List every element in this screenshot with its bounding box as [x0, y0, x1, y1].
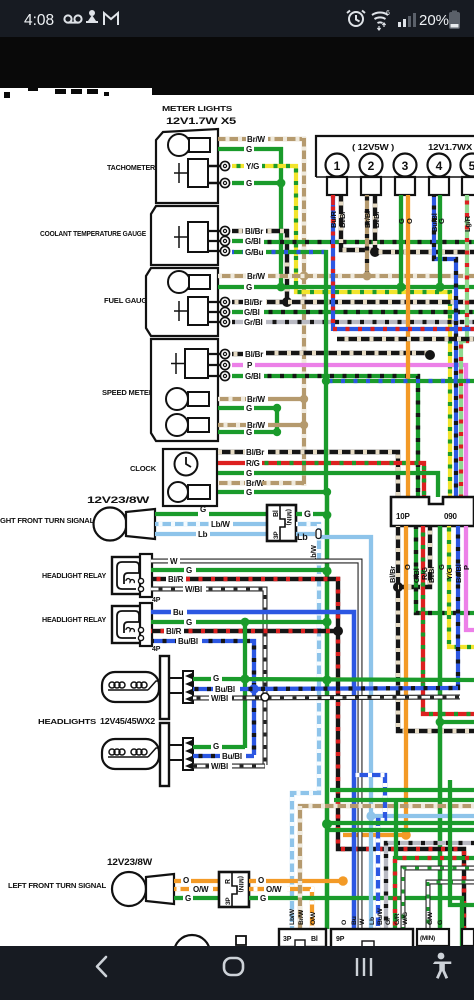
- svg-text:12V45/45WX2: 12V45/45WX2: [100, 716, 155, 726]
- svg-text:G: G: [260, 894, 266, 903]
- wire G relay2 run: [196, 620, 329, 624]
- svg-text:3P: 3P: [273, 531, 280, 539]
- svg-text:LEFT FRONT TURN SIGNAL: LEFT FRONT TURN SIGNAL: [8, 883, 107, 890]
- svg-text:O: O: [183, 876, 189, 885]
- svg-text:P: P: [247, 361, 253, 370]
- svg-text:W/Bl: W/Bl: [211, 762, 228, 771]
- terminal G/Bl fuel: [220, 307, 229, 316]
- terminal G/Bl speed: [220, 371, 229, 380]
- wire G/R 9P pin: [395, 858, 474, 929]
- lamp socket 3: [395, 177, 415, 195]
- wire Bl/Br coolant run: [266, 229, 289, 233]
- wire Lg/R lamp5: [461, 195, 467, 497]
- svg-text:METER LIGHTS: METER LIGHTS: [162, 104, 232, 113]
- wire Br/W tach bulb: [218, 137, 246, 141]
- svg-text:G: G: [213, 674, 219, 683]
- stub tach terminals: [208, 166, 220, 183]
- svg-text:Bl/Br: Bl/Br: [372, 211, 381, 228]
- meter light bulb (speed lower): [166, 414, 188, 436]
- left front turn signal bulb: [112, 872, 146, 906]
- svg-text:G: G: [186, 566, 192, 575]
- svg-text:G/Bl: G/Bl: [244, 308, 260, 317]
- wire G bottom bus3: [327, 821, 474, 825]
- wire Bu relay2: [151, 610, 171, 615]
- wire G bottom bus1: [330, 788, 474, 792]
- junction O turn: [338, 876, 348, 886]
- wire G turn lower: [174, 896, 183, 900]
- wire Br/Bl lamp2: [365, 195, 369, 277]
- wire Bu/Bl relay2 run: [202, 641, 254, 755]
- partial turn signal bulb bottom: [174, 935, 210, 971]
- headlight bulb 1: [102, 672, 159, 702]
- junction Br/W x304: [299, 271, 308, 280]
- connector MIN lower: [219, 872, 249, 907]
- junction G turn: [323, 511, 332, 520]
- nav recents button: [357, 958, 371, 976]
- svg-text:Bu/R: Bu/R: [329, 211, 338, 228]
- junction Bl/Br x375: [370, 247, 380, 257]
- fuel gauge housing box: [146, 268, 218, 336]
- wire G headlight1: [193, 677, 211, 681]
- wire R/G clock: [218, 461, 245, 465]
- svg-text:HEADLIGHTS: HEADLIGHTS: [38, 719, 97, 726]
- wire Y/G 10P pin: [449, 526, 474, 647]
- wire G relay2: [151, 620, 184, 624]
- svg-text:Bl/Br: Bl/Br: [246, 448, 264, 457]
- wire Br/W tach to vertical: [268, 137, 306, 141]
- meter light bulb (fuel): [168, 271, 190, 293]
- wire G tach bulb: [218, 147, 244, 151]
- wire Bl/Br coolant: [232, 229, 243, 233]
- terminal P speed: [220, 360, 229, 369]
- svg-text:W/G: W/G: [402, 912, 409, 925]
- junction Bl/R relay2: [333, 626, 343, 636]
- wire O/W turn lower out: [249, 887, 264, 891]
- nav home button: [224, 958, 243, 975]
- wire Bl/Br coolant drop: [285, 229, 289, 303]
- wire Br/W bus: [268, 274, 474, 278]
- svg-text:Bl/Br: Bl/Br: [388, 566, 397, 583]
- svg-text:Br/Bl: Br/Bl: [363, 211, 372, 228]
- svg-text:12V23/8W: 12V23/8W: [87, 495, 150, 505]
- indicator lamp 4: [428, 154, 451, 177]
- junction G relay1: [322, 566, 331, 575]
- junction G bus sockets: [396, 282, 405, 291]
- junction G relay2: [322, 617, 331, 626]
- svg-text:Y/G: Y/G: [246, 162, 259, 171]
- wire Bu/Bl headlight bus: [240, 688, 458, 689]
- svg-text:G/W: G/W: [427, 911, 434, 925]
- wire Bu/Bl lamp4: [434, 195, 456, 497]
- junction G x277: [273, 404, 281, 412]
- wire Bl/Br lower bus: [337, 337, 474, 341]
- svg-text:O/W: O/W: [193, 885, 209, 894]
- svg-text:G: G: [437, 218, 446, 224]
- wire G/Bu coolant: [232, 250, 243, 254]
- junction G clock x327: [323, 488, 331, 496]
- wire Bl/Br right bus: [375, 250, 474, 254]
- wire G headlight2: [193, 745, 211, 749]
- wire P 10P pin: [466, 526, 474, 630]
- wire Br/W clock bulb: [218, 481, 245, 485]
- svg-text:Y/G: Y/G: [445, 567, 454, 580]
- svg-text:Br/W: Br/W: [246, 479, 265, 488]
- svg-text:( 12V5W ): ( 12V5W ): [352, 142, 394, 152]
- meter light bulb (tachometer): [168, 134, 190, 156]
- svg-text:Lb/W: Lb/W: [289, 908, 296, 925]
- svg-text:1: 1: [334, 159, 341, 173]
- svg-text:3P: 3P: [225, 897, 232, 905]
- wire G tach to vertical: [254, 147, 283, 151]
- wire G clock: [218, 471, 244, 475]
- connector MIN bottom: [417, 929, 449, 946]
- wire W/G 9P pin: [403, 868, 474, 929]
- svg-text:Br/W: Br/W: [247, 395, 266, 404]
- svg-text:12V1.7WX: 12V1.7WX: [428, 143, 473, 152]
- svg-text:G: G: [246, 145, 252, 154]
- wire Bu/R horizontal lower: [333, 327, 474, 331]
- junction G x440: [436, 718, 445, 727]
- wire Bl/Br lamp2: [373, 195, 377, 254]
- wire G headlight link vertical: [243, 622, 247, 748]
- wire Lb turn out: [296, 532, 315, 536]
- indicator lamp 1: [326, 154, 349, 177]
- indicator lamp 3: [394, 154, 417, 177]
- lamp socket 4: [429, 177, 449, 195]
- tachometer housing box: [156, 129, 218, 203]
- speedometer gauge: [185, 349, 208, 378]
- wire G clock bulb run: [254, 490, 328, 494]
- wire G main vertical: [325, 490, 330, 929]
- clock face: [175, 453, 198, 476]
- wire Y/G tach: [232, 164, 244, 168]
- terminal Lb end: [316, 529, 321, 539]
- wire Bu/R lamp1: [331, 195, 335, 331]
- svg-text:G: G: [185, 894, 191, 903]
- wire Y/G tach run: [262, 166, 450, 497]
- wire G bottom bus4: [327, 828, 474, 832]
- svg-text:Bl: Bl: [311, 936, 318, 943]
- indicator lamp panel box: [316, 136, 474, 177]
- svg-text:P: P: [462, 565, 471, 570]
- junction Bu/Bl headlamp: [249, 684, 259, 694]
- svg-text:W/Bl: W/Bl: [211, 694, 228, 703]
- wire P run: [255, 365, 466, 497]
- wire Lb/W turn upper: [155, 522, 209, 526]
- svg-text:10P: 10P: [396, 512, 410, 521]
- svg-text:9P: 9P: [336, 936, 345, 943]
- headlight relay 2: [112, 606, 151, 643]
- svg-text:W: W: [170, 557, 178, 566]
- svg-text:Bl/R: Bl/R: [168, 575, 184, 584]
- svg-text:4P: 4P: [152, 646, 161, 653]
- wire Bl/Br clock run: [268, 452, 398, 497]
- junction Br/Bl on Br/W bus: [363, 272, 372, 281]
- junction Bl/Br 10P: [393, 582, 403, 592]
- wire Bu relay2 run: [187, 612, 354, 929]
- filament coils headlight 2: [108, 749, 126, 757]
- wire O/W turn lower: [174, 887, 191, 891]
- wire G turn lower run: [268, 898, 462, 946]
- svg-text:20%: 20%: [419, 12, 449, 29]
- wire G/Bu run: [266, 250, 328, 254]
- connector MIN upper: [267, 505, 296, 541]
- svg-text:4P: 4P: [152, 597, 161, 604]
- wire G headlight bus: [222, 679, 474, 680]
- svg-text:12V1.7W X5: 12V1.7W X5: [166, 116, 237, 127]
- headlight mount 2: [160, 723, 169, 786]
- wire Bl/R relay2: [151, 629, 164, 633]
- wire Bl/R relay1: [151, 577, 166, 581]
- wire P speed: [232, 363, 243, 367]
- junction G headlight: [240, 674, 249, 683]
- wire Br/W speed bulb lower: [218, 423, 246, 427]
- turn signal socket lower: [146, 874, 174, 904]
- wire Bl/R relay2 run: [184, 629, 340, 633]
- wire Bu/W jog: [354, 775, 385, 929]
- svg-text:Gr/Bl: Gr/Bl: [244, 318, 263, 327]
- wire G lamp4: [438, 195, 442, 289]
- terminal Y/G tach: [220, 161, 229, 170]
- wire Lb bottom: [371, 814, 474, 818]
- svg-text:G: G: [246, 428, 252, 437]
- svg-text:090: 090: [444, 512, 457, 521]
- svg-text:O/W: O/W: [310, 911, 317, 925]
- svg-text:W/Bl: W/Bl: [185, 585, 202, 594]
- fuel gauge: [188, 297, 208, 325]
- svg-text:O: O: [405, 218, 414, 224]
- wire G meter-lights vertical: [279, 147, 283, 289]
- terminal G/Bl coolant: [220, 236, 229, 245]
- svg-text:Bl/Br: Bl/Br: [245, 350, 263, 359]
- svg-text:Lg/R: Lg/R: [463, 215, 472, 232]
- svg-text:Lb: Lb: [198, 530, 208, 539]
- lamp socket 1: [327, 177, 347, 195]
- battery icon: [449, 11, 460, 30]
- wire G lamp3: [399, 195, 403, 289]
- svg-text:COOLANT TEMPERATURE GAUGE: COOLANT TEMPERATURE GAUGE: [40, 229, 146, 238]
- wire O lamp3: [406, 195, 410, 497]
- svg-text:4: 4: [436, 159, 443, 173]
- svg-text:(MIN): (MIN): [420, 935, 435, 942]
- wire G speed upper to vert: [254, 406, 279, 410]
- navigation bar background: [0, 946, 474, 1000]
- wire G/Bu lower bus: [326, 379, 474, 383]
- scanned page black header: [0, 37, 474, 95]
- wire G bottom bus2: [334, 798, 474, 802]
- headlight mount 1: [160, 656, 169, 719]
- wire G/W min pin: [428, 882, 474, 929]
- headlight bulb 2: [102, 739, 159, 769]
- svg-text:Lb: Lb: [297, 532, 308, 542]
- connector 9P: [331, 929, 413, 948]
- partial page number text F-557: [4, 88, 109, 98]
- wire W/Bl headlight1: [193, 696, 209, 701]
- wire W relay1 run: [180, 561, 360, 929]
- wire G relay1: [151, 568, 184, 572]
- wire Bl/R relay1 run: [186, 579, 464, 946]
- clock illumination bulb: [168, 482, 188, 502]
- svg-text:G/Bu: G/Bu: [245, 248, 264, 257]
- lamp socket 5: [462, 177, 474, 195]
- svg-text:HEADLIGHT RELAY: HEADLIGHT RELAY: [42, 573, 107, 580]
- wire Br/W fuel bulb label: [218, 274, 246, 278]
- svg-text:(MIN): (MIN): [285, 509, 292, 525]
- headlight relay 1: [112, 557, 151, 594]
- wire Bl/Br fuel: [232, 300, 243, 304]
- wire Bu/Bl headlight2: [193, 754, 220, 758]
- wire Br/W lamp-feed vertical: [302, 137, 306, 486]
- svg-text:2: 2: [368, 159, 375, 173]
- wire G/Bl fuel: [232, 310, 243, 314]
- svg-text:G/Bl: G/Bl: [245, 372, 261, 381]
- svg-text:Bl/R: Bl/R: [166, 627, 182, 636]
- junction Bl/Br x287: [282, 297, 292, 307]
- junction Bl/Br x430: [425, 350, 435, 360]
- svg-text:Br/W: Br/W: [298, 909, 305, 925]
- wire Bl/Br lamp1: [341, 195, 375, 250]
- svg-text:CLOCK: CLOCK: [130, 464, 157, 473]
- terminal G tach: [220, 178, 229, 187]
- terminal Bl/Br fuel: [220, 297, 229, 306]
- junction W/Bl open: [261, 693, 269, 701]
- wire G turn upper: [155, 512, 198, 516]
- wire G/Bl bus 2: [264, 310, 474, 314]
- wire W/Bl headlight2: [193, 764, 209, 769]
- wire Lb 9P pin: [369, 816, 373, 929]
- connector 10P: [391, 497, 474, 526]
- wire G turn upper out: [296, 512, 302, 516]
- svg-text:R/G: R/G: [420, 567, 429, 580]
- wire Gr/Bl fuel: [232, 320, 243, 324]
- wire G turn lower out: [249, 896, 258, 900]
- wire G clock run: [254, 473, 438, 497]
- svg-text:G: G: [246, 488, 252, 497]
- svg-text:Bl/Br: Bl/Br: [244, 298, 262, 307]
- wire Lb/W branch right: [319, 537, 371, 816]
- terminal Bl/Br speed: [220, 349, 229, 358]
- wire R/G 10P pin: [423, 526, 474, 714]
- wire W/Bl relay1: [151, 587, 183, 592]
- wire O/W run: [287, 889, 312, 929]
- indicator lamp 2: [360, 154, 383, 177]
- wire Bl/Br clock: [218, 450, 245, 454]
- wire Bl/Br speed: [232, 352, 243, 356]
- wire W/Bl headlight bus: [232, 697, 460, 698]
- wire Br/W speed bulb upper: [218, 397, 246, 401]
- person/anchor icon: [86, 10, 98, 23]
- svg-text:Bl/Br: Bl/Br: [245, 227, 263, 236]
- svg-text:3: 3: [402, 159, 409, 173]
- svg-text:SPEED METER: SPEED METER: [102, 388, 155, 397]
- wire O 10P pin: [343, 526, 406, 835]
- tachometer gauge: [188, 159, 208, 187]
- wifi icon: [372, 12, 388, 23]
- wire G/Bl speed: [232, 374, 243, 378]
- svg-text:4:08: 4:08: [24, 12, 54, 29]
- svg-text:Bu/Bl: Bu/Bl: [215, 685, 235, 694]
- wire Bu/Bl headlight1: [193, 687, 213, 691]
- svg-text:G: G: [246, 179, 252, 188]
- wire W relay1: [151, 559, 168, 564]
- wire G/Bu vertical: [324, 250, 328, 494]
- terminal Bl/Br coolant: [220, 226, 229, 235]
- indicator lamp 5: [461, 154, 474, 177]
- svg-text:Lb/W: Lb/W: [211, 520, 230, 529]
- filament coils headlight 1: [108, 682, 126, 690]
- svg-text:Bu/Bl: Bu/Bl: [178, 637, 198, 646]
- wire G/Bl 10P pin: [416, 526, 474, 613]
- wire G bus: [254, 285, 474, 289]
- terminal G/Bu coolant: [220, 246, 229, 255]
- svg-text:G: G: [200, 505, 206, 514]
- signal bars icon: [398, 19, 406, 27]
- wire R/G clock run: [262, 463, 424, 497]
- terminal Gr/Bl fuel: [220, 317, 229, 326]
- headlight connector 1: [183, 671, 193, 703]
- wire O turn lower out: [249, 879, 256, 883]
- svg-text:5: 5: [469, 159, 474, 173]
- status bar background: [0, 0, 474, 37]
- wire G fuel bulb: [218, 285, 244, 289]
- svg-text:Bu/Bl: Bu/Bl: [222, 752, 242, 761]
- turn signal socket upper: [126, 509, 155, 539]
- wire Bl/Br 10P pin: [398, 526, 474, 731]
- wire Gr 9P pin: [386, 843, 474, 929]
- svg-text:G/Bl: G/Bl: [245, 237, 261, 246]
- right front turn signal bulb: [94, 508, 127, 541]
- lamp socket 2: [361, 177, 381, 195]
- wire G relay1 run: [196, 568, 329, 572]
- wire Bu/Bl 10P pin: [452, 526, 458, 688]
- connector 3P Bl: [279, 929, 326, 947]
- wire Bu/Bl relay2: [151, 639, 176, 643]
- wire G speed bulb lower: [218, 430, 244, 434]
- wire G riser mid bottom: [394, 802, 398, 856]
- wire Gr/Bl bus: [266, 320, 474, 324]
- gmail M icon: [104, 13, 118, 25]
- coolant temperature gauge housing box: [151, 206, 218, 265]
- wire G clock bulb: [218, 490, 244, 494]
- svg-text:G/R: G/R: [394, 913, 401, 925]
- junction Br/W speed bulbs: [300, 395, 308, 403]
- wire Br/W clock link: [262, 481, 304, 485]
- svg-text:G: G: [437, 920, 444, 925]
- junction G x281: [277, 179, 286, 188]
- connector stub right: [462, 929, 474, 946]
- svg-text:Bu: Bu: [351, 916, 358, 925]
- svg-text:G: G: [246, 404, 252, 413]
- wire Bl/Br speed run: [266, 351, 432, 355]
- svg-text:12V23/8W: 12V23/8W: [107, 857, 153, 867]
- wire Br/W bottom: [300, 806, 474, 929]
- wire G/Bl speed run: [264, 376, 418, 497]
- junction O: [401, 830, 411, 840]
- svg-text:(MIN): (MIN): [237, 876, 244, 892]
- svg-text:G: G: [186, 618, 192, 627]
- svg-text:Bl/Br: Bl/Br: [338, 211, 347, 228]
- svg-text:Lb: Lb: [369, 917, 376, 925]
- svg-text:Gr: Gr: [385, 917, 392, 925]
- wire G/Bl bus: [264, 240, 474, 244]
- svg-text:Bl: Bl: [273, 510, 280, 517]
- wire Bl/Br bus: [266, 300, 474, 304]
- junction G relay2 link: [241, 618, 250, 627]
- svg-text:W: W: [359, 918, 366, 925]
- svg-text:R: R: [225, 879, 232, 884]
- wire G/Bl coolant: [232, 239, 243, 243]
- wire O turn lower: [174, 879, 181, 883]
